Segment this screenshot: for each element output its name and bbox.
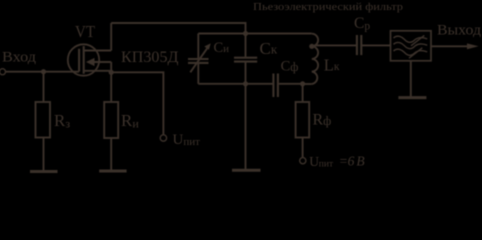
- filter wave 3: [394, 49, 428, 55]
- filter slash 1: [411, 35, 424, 45]
- transistor gate bar: [78, 49, 80, 72]
- terminal Uпит: [160, 135, 166, 141]
- wire: source junction to Uпит terminal: [111, 72, 163, 135]
- resistor Rф: [296, 102, 310, 138]
- resistor Rи: [104, 102, 118, 138]
- svg-text:КП305Д: КП305Д: [121, 49, 179, 66]
- node: gate/Rз junction: [41, 69, 46, 74]
- svg-text:Пьезоэлектрический фильтр: Пьезоэлектрический фильтр: [253, 1, 404, 13]
- terminal Uпит=6В: [300, 158, 306, 164]
- capacitor Cк: [245, 34, 247, 57]
- svg-text:Rф: Rф: [313, 111, 332, 128]
- node: source junction: [109, 70, 114, 75]
- transistor substrate lead with arrow: [94, 61, 112, 63]
- filter wave 2: [394, 42, 428, 48]
- capacitor Cр: [356, 35, 358, 55]
- svg-text:VT: VT: [75, 22, 96, 41]
- wire: top node line: [198, 33, 311, 35]
- svg-text:Cи: Cи: [214, 40, 230, 56]
- wire: junction down to R1: [43, 72, 45, 102]
- wire: Cк junction to ground: [245, 84, 247, 169]
- svg-text:Вход: Вход: [2, 49, 37, 65]
- wire: top rail from drain: [111, 23, 245, 34]
- wire: Rз to ground: [43, 138, 45, 171]
- svg-text:Cк: Cк: [260, 39, 278, 58]
- node: Cк bottom junction: [243, 81, 248, 86]
- wire: junction to Rф: [302, 84, 304, 102]
- wire: substrate+source down to junction: [110, 62, 112, 72]
- ground bar (Cк): [232, 169, 261, 172]
- transistor channel bar: [83, 46, 85, 74]
- svg-text:6В: 6В: [348, 153, 367, 168]
- capacitor Cф: [272, 74, 274, 98]
- svg-text:Cф: Cф: [281, 58, 299, 74]
- wire: filter ground stub: [410, 61, 412, 97]
- svg-text:U: U: [309, 154, 319, 169]
- ground bar (Rи): [99, 170, 126, 173]
- inductor Lк: [312, 34, 318, 84]
- transistor drain lead: [84, 50, 112, 52]
- node: Rф junction: [300, 81, 305, 86]
- wire: bottom node line: [198, 83, 272, 85]
- svg-text:=: =: [339, 153, 348, 168]
- filter slash 2: [409, 48, 422, 58]
- wire: input to gate: [6, 71, 80, 73]
- wire: junction to Rи: [110, 72, 112, 102]
- wire: bottom line to coil: [303, 83, 312, 85]
- wire: tap to Cр: [312, 44, 357, 47]
- resistor Rз: [36, 102, 51, 138]
- wire: Rф to Uпит=6В terminal: [302, 138, 304, 158]
- input terminal: [0, 69, 6, 75]
- ground bar (Rз): [30, 170, 58, 173]
- transistor VT circle: [68, 44, 99, 75]
- filter wave 1: [394, 36, 428, 42]
- svg-text:Выход: Выход: [437, 22, 481, 38]
- transistor source lead: [84, 70, 112, 72]
- svg-text:пит: пит: [319, 159, 334, 169]
- capacitor Cи (variable): [197, 34, 199, 59]
- wire: Rи to ground: [110, 138, 112, 170]
- node: coil tap: [309, 44, 314, 49]
- wire: output with arrow: [431, 45, 470, 47]
- transistor drain riser: [110, 23, 112, 51]
- piezoelectric filter box: [391, 31, 432, 61]
- ground bar (filter): [398, 96, 426, 99]
- node: top junction: [243, 31, 248, 36]
